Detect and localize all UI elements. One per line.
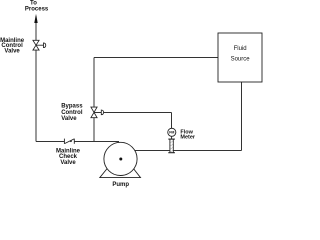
svg-text:Source: Source [231,56,251,62]
svg-text:Control: Control [61,110,83,116]
svg-text:Check: Check [59,154,78,160]
svg-text:Pump: Pump [112,182,129,188]
svg-text:Bypass: Bypass [61,104,83,110]
svg-text:Valve: Valve [4,49,20,55]
svg-text:FM: FM [169,131,174,135]
svg-text:Fluid: Fluid [234,46,247,52]
svg-text:Process: Process [25,7,49,13]
svg-text:Valve: Valve [61,116,77,122]
svg-text:Meter: Meter [180,134,196,140]
svg-text:Valve: Valve [60,160,76,166]
